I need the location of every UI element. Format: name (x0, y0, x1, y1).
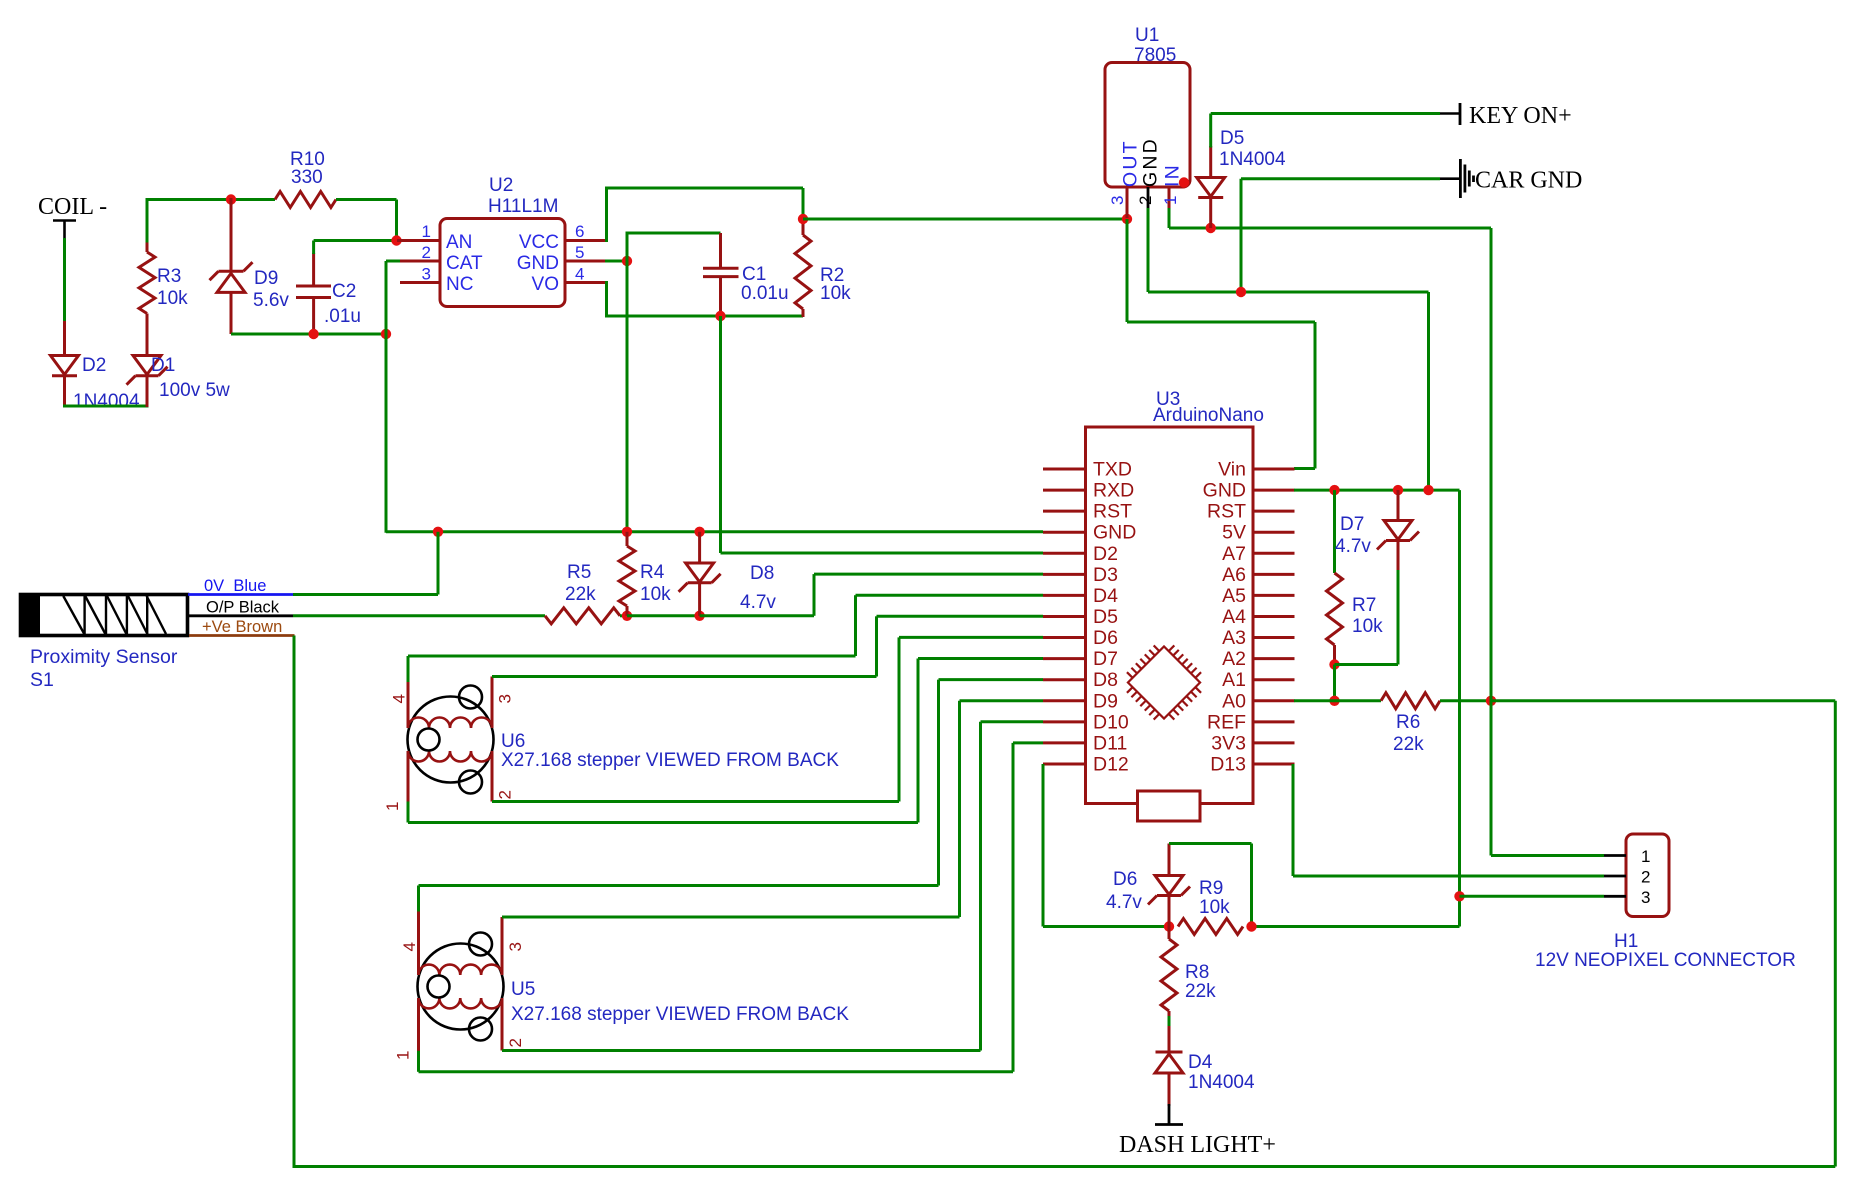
wire divider gnd row (1252, 925, 1460, 928)
svg-text:A6: A6 (1222, 564, 1246, 586)
svg-text:6: 6 (575, 222, 584, 241)
pin U3 A7 (right) (1222, 543, 1294, 565)
label C1 (742, 264, 766, 285)
svg-text:1: 1 (383, 802, 402, 811)
svg-text:10k: 10k (1199, 897, 1230, 918)
label D2 (82, 355, 106, 376)
svg-text:NC: NC (446, 274, 473, 295)
resistor R4 (619, 532, 635, 616)
junction GND/0V (433, 527, 443, 537)
wire U1 OUT to Vin (1127, 219, 1315, 469)
svg-text:3: 3 (506, 942, 525, 951)
label U5 (511, 979, 535, 1000)
pin U3 D4 (left 7) (1043, 585, 1118, 607)
label R9 (1199, 878, 1223, 899)
svg-text:COIL -: COIL - (38, 194, 107, 220)
pin U3 D13 (right) (1210, 753, 1294, 775)
pin 1 U1 IN (1161, 163, 1184, 209)
pin 3 H1 (1604, 888, 1650, 907)
label R2 value (820, 283, 851, 304)
label R6 value (1393, 734, 1424, 755)
junction GND/R7 (1329, 485, 1339, 495)
label D4 (1188, 1052, 1213, 1073)
junction H1 pin3 tap (1454, 891, 1464, 901)
svg-text:+Ve Brown: +Ve Brown (202, 618, 282, 636)
junction A0/R7 (1329, 696, 1339, 706)
junction GND/D7 (1393, 485, 1403, 495)
pin U3 3V3 (right) (1211, 732, 1294, 754)
wire GND row (386, 530, 1043, 533)
stepper U6 bottom winding (408, 751, 492, 762)
svg-text:5.6v: 5.6v (253, 290, 289, 311)
svg-text:AN: AN (446, 232, 472, 253)
svg-text:VO: VO (532, 274, 559, 295)
label U3 value (1153, 405, 1264, 426)
wire U6 pin1 to D7 (408, 659, 1043, 823)
pin 1 U2 AN (397, 222, 472, 253)
pin U3 D7 (left 10) (1043, 648, 1118, 670)
svg-text:5: 5 (575, 243, 584, 262)
svg-text:3: 3 (422, 265, 431, 284)
svg-text:D10: D10 (1093, 711, 1129, 733)
wire bottom rail (294, 1165, 1835, 1168)
wire GND rail down to arduino (1427, 292, 1430, 490)
label U1 value (1134, 45, 1176, 66)
diode D5 (1197, 146, 1225, 228)
wire U6 pin4 tail (407, 656, 410, 682)
svg-text:22k: 22k (565, 584, 596, 605)
wire U1 IN down (1168, 208, 1171, 228)
svg-text:ArduinoNano: ArduinoNano (1153, 405, 1264, 426)
stepper U5 bottom marker (469, 1018, 492, 1041)
svg-text:.01u: .01u (324, 306, 361, 327)
svg-text:1: 1 (1161, 196, 1180, 205)
label D8 (750, 563, 774, 584)
wire H1 pin1 (1491, 854, 1604, 857)
svg-text:0.01u: 0.01u (741, 283, 789, 304)
svg-text:GND: GND (517, 253, 559, 274)
wire COIL- down (63, 238, 66, 323)
svg-text:D6: D6 (1093, 627, 1118, 649)
pin U3 D10 (left 13) (1043, 711, 1129, 733)
label U2 (489, 175, 513, 196)
svg-text:R7: R7 (1352, 595, 1376, 616)
capacitor C1 (703, 233, 739, 317)
svg-text:R3: R3 (157, 266, 181, 287)
svg-text:A4: A4 (1222, 606, 1246, 628)
svg-text:U6: U6 (501, 731, 525, 752)
pin U3 REF (right) (1207, 711, 1295, 733)
label R7 value (1352, 616, 1383, 637)
wire O/P black segment (189, 614, 293, 617)
svg-text:D11: D11 (1093, 732, 1127, 754)
stepper U6 bottom marker (459, 771, 482, 794)
pin U3 A1 (right) (1222, 669, 1294, 691)
svg-text:1N4004: 1N4004 (73, 391, 140, 412)
resistor R3 (139, 241, 155, 314)
wire U5 pin2 to D10 (502, 722, 1043, 1051)
svg-text:10k: 10k (640, 584, 671, 605)
label D2 value (73, 391, 140, 412)
svg-text:X27.168 stepper VIEWED FROM BA: X27.168 stepper VIEWED FROM BACK (511, 1004, 849, 1025)
svg-text:A1: A1 (1222, 669, 1246, 691)
svg-text:10k: 10k (157, 288, 188, 309)
svg-text:5V: 5V (1222, 522, 1246, 544)
wire D13 to H1 pin2 (1293, 764, 1604, 876)
wire R5 to node (620, 614, 627, 617)
connector H1 box (1626, 834, 1669, 917)
resistor R5 (545, 608, 620, 624)
wire +5V rail to U1 OUT (803, 218, 1127, 221)
label D4 value (1188, 1072, 1255, 1093)
junction U2 pin5 (622, 256, 632, 266)
svg-text:3V3: 3V3 (1211, 732, 1246, 754)
node KEY ON+ terminal (1440, 103, 1572, 129)
pin 2 U6 (492, 751, 515, 802)
resistor R9 (1178, 919, 1243, 935)
pin U3 D9 (left 12) (1043, 690, 1118, 712)
node COIL - terminal (38, 194, 107, 240)
svg-text:7805: 7805 (1134, 45, 1176, 66)
pin U3 5V (right) (1222, 522, 1294, 544)
wire CAT to GND (386, 261, 400, 533)
label D7 value (1335, 536, 1371, 557)
stepper U5 top winding (419, 965, 503, 975)
wire D6 top loop (1169, 844, 1252, 927)
wire U5 pin1 tail (417, 1051, 420, 1072)
label C2 (332, 281, 356, 302)
pin 4 U2 VO (532, 265, 607, 296)
svg-text:1N4004: 1N4004 (1219, 149, 1286, 170)
pin 1 U6 (383, 751, 408, 811)
regulator U1 7805 box (1105, 63, 1190, 188)
label D9 (254, 268, 278, 289)
svg-text:D8: D8 (750, 563, 774, 584)
wire 0V green to GND (293, 532, 438, 595)
wire U5 pin1 to D11 (419, 743, 1044, 1072)
svg-text:R6: R6 (1396, 712, 1420, 733)
diode D1 (zener 100v) (127, 314, 168, 408)
junction top rail / D9 (226, 194, 236, 204)
svg-text:3: 3 (1641, 888, 1650, 907)
svg-text:RXD: RXD (1093, 480, 1134, 502)
pin 1 U5 (394, 998, 419, 1060)
label R9 value (1199, 897, 1230, 918)
wire GND pin5 to vertical (605, 260, 627, 263)
svg-text:Proximity Sensor: Proximity Sensor (30, 646, 178, 668)
stepper U5 left marker (428, 976, 450, 998)
svg-text:100v 5w: 100v 5w (159, 380, 230, 401)
pin U3 D2 (left 5) (1043, 543, 1118, 565)
junction GND/car-gnd (1423, 485, 1433, 495)
label D9 value (253, 290, 289, 311)
wire U5 pin3 to D9 (502, 701, 1043, 917)
svg-text:2: 2 (496, 790, 515, 799)
wire +Ve down left edge (293, 636, 296, 1169)
wire C2 top to AN node (314, 241, 397, 255)
svg-text:VCC: VCC (519, 232, 559, 253)
pin 2 H1 (1604, 868, 1650, 887)
svg-text:10k: 10k (1352, 616, 1383, 637)
svg-text:A3: A3 (1222, 627, 1246, 649)
label D6 (1113, 869, 1137, 890)
stepper U6 top winding (408, 718, 492, 729)
zener D7 (4.7v) (1377, 490, 1419, 571)
svg-text:22k: 22k (1185, 981, 1216, 1002)
svg-text:C1: C1 (742, 264, 766, 285)
U3 usb connector glyph (1138, 791, 1201, 821)
svg-text:RST: RST (1207, 501, 1246, 523)
svg-text:4: 4 (390, 694, 409, 703)
svg-text:2: 2 (422, 243, 431, 262)
pin U3 D12 (left 15) (1043, 753, 1129, 775)
label R4 (640, 562, 665, 583)
pin U3 D8 (left 11) (1043, 669, 1118, 691)
svg-text:C2: C2 (332, 281, 356, 302)
svg-text:U5: U5 (511, 979, 535, 1000)
svg-text:A7: A7 (1222, 543, 1246, 565)
label H1 value (1535, 950, 1796, 971)
op-amp U3 ArduinoNano box (1086, 427, 1254, 804)
svg-text:R9: R9 (1199, 878, 1223, 899)
stepper U6 top marker (459, 686, 482, 709)
junction U1 OUT node (1122, 214, 1132, 224)
label R8 (1185, 962, 1209, 983)
junction bottom row / CAT wire (381, 329, 391, 339)
wire right edge up (1834, 701, 1837, 1167)
svg-text:D6: D6 (1113, 869, 1137, 890)
svg-text:O/P Black: O/P Black (206, 599, 280, 617)
svg-text:3: 3 (1108, 196, 1127, 205)
label H1 (1614, 931, 1638, 952)
diode D4 (1155, 1026, 1183, 1106)
svg-text:330: 330 (291, 167, 323, 188)
wire O/P to R5 (293, 614, 545, 617)
junction D8 bottom (694, 611, 704, 621)
wire U6 pin1 tail (407, 802, 410, 823)
junction R2 top (798, 214, 808, 224)
label R8 value (1185, 981, 1216, 1002)
label U6 value (501, 750, 839, 771)
wire U6 pin2 to D6 (492, 637, 1043, 801)
label R3 (157, 266, 181, 287)
pin U3 RXD (left 2) (1043, 480, 1134, 502)
svg-text:D8: D8 (1093, 669, 1118, 691)
junction R7 bottom (1329, 659, 1339, 669)
svg-text:CAT: CAT (446, 253, 483, 274)
stepper U5 top marker (469, 933, 492, 956)
junction C1 bottom (715, 311, 725, 321)
svg-text:KEY ON+: KEY ON+ (1469, 103, 1572, 129)
pin 2 U5 (502, 998, 525, 1051)
wire O/P row to D3 (700, 574, 1043, 616)
svg-text:D7: D7 (1093, 648, 1118, 670)
label +Ve Brown (202, 618, 282, 636)
svg-text:A5: A5 (1222, 585, 1246, 607)
wire keyed 12V rail (1169, 227, 1491, 230)
svg-text:D5: D5 (1093, 606, 1118, 628)
label D1 (151, 355, 175, 376)
svg-text:10k: 10k (820, 283, 851, 304)
svg-text:D3: D3 (1093, 564, 1118, 586)
svg-text:D1: D1 (151, 355, 175, 376)
svg-text:A0: A0 (1222, 690, 1246, 712)
label R10 (290, 149, 325, 170)
svg-text:X27.168 stepper VIEWED FROM BA: X27.168 stepper VIEWED FROM BACK (501, 750, 839, 771)
svg-text:S1: S1 (30, 669, 54, 691)
label S1 (30, 669, 54, 691)
svg-text:RST: RST (1093, 501, 1132, 523)
wire D7 bottom loop (1335, 570, 1399, 665)
junction A0 node (1486, 696, 1496, 706)
stepper U5 body circle (418, 944, 504, 1030)
svg-text:D4: D4 (1093, 585, 1118, 607)
pin U3 Vin (right) (1218, 459, 1294, 481)
wire D9/C2 bottom row (231, 333, 386, 336)
svg-text:OUT: OUT (1120, 139, 1142, 187)
wire rail to R10 (231, 198, 275, 201)
wire U6 pin3 to D5 (492, 616, 1043, 676)
label D6 value (1106, 892, 1142, 913)
junction C2 bottom (308, 329, 318, 339)
svg-text:12V NEOPIXEL CONNECTOR: 12V NEOPIXEL CONNECTOR (1535, 950, 1796, 971)
pin U3 A4 (right) (1222, 606, 1294, 628)
svg-text:D12: D12 (1093, 753, 1129, 775)
svg-text:U2: U2 (489, 175, 513, 196)
label C2 value (324, 306, 361, 327)
label U2 value (488, 196, 558, 217)
wire D5 to KEY ON+ (1211, 114, 1440, 148)
svg-text:CAR GND: CAR GND (1475, 168, 1582, 194)
svg-text:GND: GND (1140, 137, 1162, 187)
label 0V Blue (204, 577, 266, 595)
label D5 value (1219, 149, 1286, 170)
svg-text:D2: D2 (82, 355, 106, 376)
label D1 value (159, 380, 230, 401)
label U5 value (511, 1004, 849, 1025)
svg-text:D13: D13 (1210, 753, 1246, 775)
label Proximity Sensor (30, 646, 178, 668)
wire GND down to divider (1458, 490, 1461, 926)
node DASH LIGHT+ terminal (1119, 1104, 1276, 1158)
pin 2 U2 CAT (400, 243, 483, 274)
label U3 (1156, 389, 1180, 410)
ground CAR GND terminal (1440, 159, 1582, 198)
label R3 value (157, 288, 188, 309)
pin U3 A3 (right) (1222, 627, 1294, 649)
svg-text:Vin: Vin (1218, 459, 1246, 481)
junction divider node (1164, 921, 1174, 931)
junction CAR GND / U1 GND (1236, 287, 1246, 297)
svg-text:GND: GND (1203, 480, 1246, 502)
label R10 value (291, 167, 323, 188)
pin 2 U1 GND (1136, 137, 1162, 209)
resistor R8 (1161, 927, 1177, 1017)
svg-text:D9: D9 (254, 268, 278, 289)
svg-text:R5: R5 (567, 562, 591, 583)
wire A0 to R6 (1294, 699, 1381, 702)
junction U1 box corner (1179, 177, 1189, 187)
pin 5 U2 GND (517, 243, 607, 274)
wire VCC up to top rail (605, 187, 803, 243)
pin U3 D6 (left 9) (1043, 627, 1118, 649)
wire GND vertical down (626, 261, 629, 533)
label O/P Black (206, 599, 280, 617)
wire CAR GND rail (1241, 179, 1440, 292)
zener D6 (4.7v) (1148, 844, 1190, 927)
wire keyed rail down to H1 pin1 (1490, 228, 1493, 856)
wire U6 pin4 to D4 (408, 595, 1043, 656)
svg-text:22k: 22k (1393, 734, 1424, 755)
op-amp U2 H11L1M box (440, 219, 565, 307)
svg-text:1: 1 (1641, 847, 1650, 866)
zener D9 (5.6v) (210, 198, 253, 334)
svg-text:4: 4 (400, 942, 419, 951)
label U6 (501, 731, 525, 752)
wire U5 pin4 to D8 (419, 680, 1044, 886)
svg-text:A2: A2 (1222, 648, 1246, 670)
stepper U6 left marker (418, 729, 440, 751)
pin 4 U5 (400, 910, 419, 975)
svg-text:REF: REF (1207, 711, 1246, 733)
wire H1 pin3 (1460, 895, 1605, 898)
wire D2-D1 bottom (63, 405, 149, 408)
svg-text:2: 2 (1641, 868, 1650, 887)
svg-text:R4: R4 (640, 562, 665, 583)
pin 3 U5 (502, 917, 525, 975)
label D8 value (740, 592, 776, 613)
svg-text:0V Blue: 0V Blue (204, 577, 266, 595)
wire pin5 node up-right to C1 (627, 232, 721, 263)
svg-text:D2: D2 (1093, 543, 1118, 565)
pin U3 A0 (right) (1222, 690, 1294, 712)
label U1 (1135, 25, 1159, 46)
stepper U6 body circle (408, 697, 494, 783)
wire D12 to divider (1043, 764, 1169, 927)
svg-text:H11L1M: H11L1M (488, 196, 558, 217)
pin U3 D5 (left 8) (1043, 606, 1118, 628)
junction node AN (391, 235, 401, 245)
pin 6 U2 VCC (519, 222, 607, 253)
pin 4 U6 (390, 681, 409, 729)
svg-text:3: 3 (496, 694, 515, 703)
wire R8 to D4 (1168, 1016, 1171, 1026)
pin U3 TXD (left 1) (1043, 459, 1132, 481)
pin U3 RST (right) (1207, 501, 1295, 523)
label C1 value (741, 283, 789, 304)
pin U3 RST (left 3) (1043, 501, 1132, 523)
svg-text:R8: R8 (1185, 962, 1209, 983)
pin U3 GND (right) (1203, 480, 1295, 502)
junction R4 bottom (622, 611, 632, 621)
svg-text:U1: U1 (1135, 25, 1159, 46)
svg-text:2: 2 (506, 1038, 525, 1047)
svg-text:4.7v: 4.7v (1106, 892, 1142, 913)
pin U3 GND (left 4) (1043, 522, 1136, 544)
svg-text:2: 2 (1136, 196, 1155, 205)
wire +Ve brown segment (189, 634, 295, 637)
proximity sensor S1 body (19, 593, 188, 637)
svg-text:DASH LIGHT+: DASH LIGHT+ (1119, 1132, 1276, 1158)
wire node to D8 (627, 614, 700, 617)
pin U3 D11 (left 14) (1043, 732, 1127, 754)
resistor R6 (1381, 693, 1440, 709)
junction D5 anode (1206, 223, 1216, 233)
svg-text:1: 1 (394, 1051, 413, 1060)
svg-text:D5: D5 (1220, 128, 1244, 149)
diode D2 (51, 321, 79, 407)
wire VO down to bottom rail (605, 281, 803, 318)
